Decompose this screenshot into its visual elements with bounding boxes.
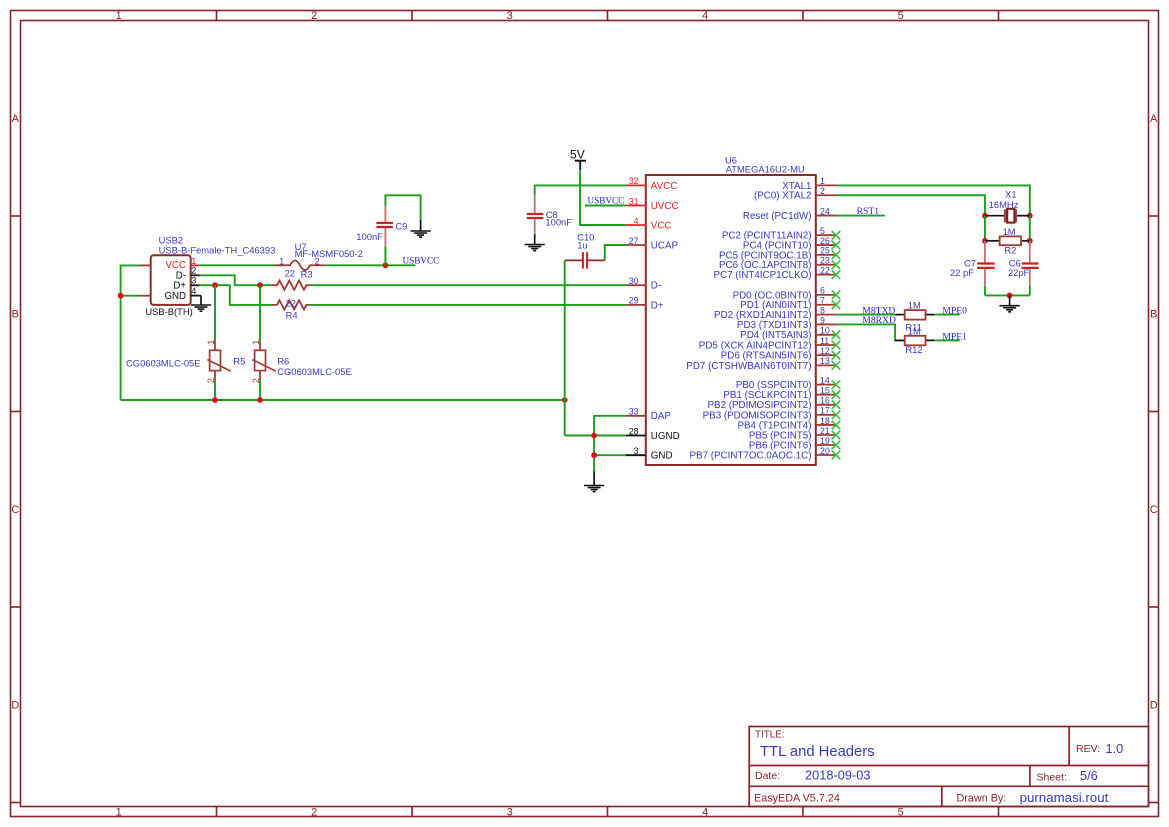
svg-text:C9: C9 xyxy=(395,220,407,231)
svg-text:C: C xyxy=(11,504,19,516)
svg-text:2: 2 xyxy=(311,806,317,818)
svg-text:TITLE:: TITLE: xyxy=(755,730,784,741)
ground (crystal) xyxy=(1000,295,1020,311)
pin 17 PB3 (PDOMISOPCINT3) xyxy=(703,406,837,422)
pin 8 PD2 (RXD1AIN1INT2) xyxy=(714,305,837,321)
svg-text:M8RXD: M8RXD xyxy=(862,315,896,326)
resistor R3 xyxy=(272,268,313,290)
svg-text:22: 22 xyxy=(820,265,830,275)
svg-text:USB-B-Female-TH_C46393: USB-B-Female-TH_C46393 xyxy=(159,244,276,255)
svg-text:100nF: 100nF xyxy=(545,216,572,227)
svg-text:1: 1 xyxy=(251,340,261,345)
no-connect pin 18 xyxy=(832,421,841,430)
no-connect pin 19 xyxy=(832,441,841,450)
wire R3 to U6 D- xyxy=(310,284,626,286)
pin 24 Reset (PC1dW) xyxy=(743,206,837,222)
svg-text:GND: GND xyxy=(164,291,186,302)
pin 3 GND xyxy=(626,446,673,462)
svg-text:CG0603MLC-05E: CG0603MLC-05E xyxy=(126,357,201,368)
varistor R5 xyxy=(206,285,245,400)
svg-text:100nF: 100nF xyxy=(356,231,383,242)
title block xyxy=(749,727,1148,807)
ground (USB2 shell) xyxy=(191,296,211,312)
svg-text:UCAP: UCAP xyxy=(651,240,679,251)
junction C10 column xyxy=(562,397,568,403)
svg-text:UVCC: UVCC xyxy=(651,201,679,212)
svg-text:3: 3 xyxy=(634,446,639,456)
junction shield xyxy=(118,293,124,299)
svg-text:26: 26 xyxy=(820,236,830,246)
wire VCC to fuse xyxy=(200,264,275,266)
svg-text:TTL and Headers: TTL and Headers xyxy=(760,744,875,760)
svg-text:2: 2 xyxy=(820,186,825,196)
wire RST1 xyxy=(837,215,885,217)
pin 31 UVCC xyxy=(626,196,679,212)
svg-text:R2: R2 xyxy=(1004,244,1016,255)
svg-text:6: 6 xyxy=(820,286,825,296)
svg-text:REV:: REV: xyxy=(1076,743,1100,755)
pin 32 AVCC xyxy=(626,176,678,192)
no-connect pin 22 xyxy=(832,270,841,279)
wire DAP xyxy=(594,416,626,472)
svg-text:5: 5 xyxy=(898,806,904,818)
ground stub pin4 xyxy=(200,295,201,297)
svg-text:4: 4 xyxy=(191,286,196,296)
svg-text:Sheet:: Sheet: xyxy=(1037,771,1067,783)
svg-text:GND: GND xyxy=(651,451,673,462)
wire M8RXD xyxy=(837,324,905,340)
svg-text:A: A xyxy=(12,113,20,125)
power 5V xyxy=(570,148,586,171)
wire XTAL2 xyxy=(837,195,985,215)
svg-text:1.0: 1.0 xyxy=(1106,741,1124,756)
no-connect pin 12 xyxy=(832,351,841,360)
svg-text:5: 5 xyxy=(820,226,825,236)
svg-text:2: 2 xyxy=(311,10,317,22)
svg-text:MPE1: MPE1 xyxy=(942,331,967,342)
svg-text:D-: D- xyxy=(651,281,661,292)
svg-text:AVCC: AVCC xyxy=(651,181,678,192)
svg-text:UGND: UGND xyxy=(651,431,680,442)
svg-text:21: 21 xyxy=(820,426,830,436)
pin 27 UCAP xyxy=(626,236,679,252)
ground (U6) xyxy=(584,472,604,492)
svg-text:PC7 (INT4ICP1CLKO): PC7 (INT4ICP1CLKO) xyxy=(714,270,812,281)
svg-text:B: B xyxy=(1150,309,1157,321)
svg-text:18: 18 xyxy=(820,416,830,426)
svg-text:16: 16 xyxy=(820,396,830,406)
pin 26 PC4 (PCINT10) xyxy=(743,236,837,252)
pin 7 PD1 (AIN0INT1) xyxy=(740,296,836,312)
svg-text:ATMEGA16U2-MU: ATMEGA16U2-MU xyxy=(726,164,805,175)
ground (C9) xyxy=(411,220,431,237)
wire USB shield left xyxy=(121,265,141,401)
pin 18 PB4 (T1PCINT4) xyxy=(737,416,836,432)
pin 15 PB1 (SCLKPCINT1) xyxy=(723,386,836,402)
no-connect pin 13 xyxy=(832,361,841,370)
svg-text:1: 1 xyxy=(206,340,216,345)
junction crystal ground xyxy=(1007,293,1013,299)
pin 29 D+ xyxy=(626,296,664,312)
pin 22 PC7 (INT4ICP1CLKO) xyxy=(714,265,837,281)
wire ground bus xyxy=(121,399,565,401)
svg-text:1M: 1M xyxy=(908,300,921,311)
no-connect pin 10 xyxy=(832,331,841,340)
wire UVCC USBVCC xyxy=(585,205,626,207)
connector USB2 xyxy=(141,255,200,305)
svg-text:13: 13 xyxy=(820,356,830,366)
svg-text:1u: 1u xyxy=(577,240,587,251)
svg-text:MF-MSMF050-2: MF-MSMF050-2 xyxy=(295,248,363,259)
junction GND xyxy=(591,452,597,458)
junction R6 top xyxy=(257,282,263,288)
no-connect pin 20 xyxy=(832,451,841,460)
svg-text:R5: R5 xyxy=(233,355,245,366)
wire crystal to R2 right xyxy=(1029,216,1031,241)
svg-text:16MHz: 16MHz xyxy=(989,199,1019,210)
svg-text:8: 8 xyxy=(820,305,825,315)
pin 20 PB7 (PCINT7OC.0AOC.1C) xyxy=(690,446,837,462)
svg-text:PB7 (PCINT7OC.0AOC.1C): PB7 (PCINT7OC.0AOC.1C) xyxy=(690,450,812,461)
no-connect pin 14 xyxy=(832,380,841,389)
svg-text:2: 2 xyxy=(191,266,196,276)
svg-text:12: 12 xyxy=(820,346,830,356)
pin 30 D- xyxy=(626,276,661,292)
wire M8TXD xyxy=(837,314,896,316)
svg-text:22 pF: 22 pF xyxy=(950,267,974,278)
pin 21 PB5 (PCINT5) xyxy=(749,426,837,442)
svg-text:RST1: RST1 xyxy=(857,206,880,217)
no-connect pin 11 xyxy=(832,341,841,350)
svg-text:1: 1 xyxy=(116,10,122,22)
svg-text:33: 33 xyxy=(629,407,639,417)
svg-text:22: 22 xyxy=(285,268,295,279)
svg-text:22pF: 22pF xyxy=(1008,267,1030,278)
junction crystal left xyxy=(982,213,988,219)
svg-text:Date:: Date: xyxy=(755,770,780,782)
wire USB D+ xyxy=(200,285,272,305)
no-connect pin 7 xyxy=(832,300,841,309)
pin 23 PC6 (OC.1APCINT8) xyxy=(719,256,837,272)
svg-text:X1: X1 xyxy=(1005,189,1016,200)
svg-text:32: 32 xyxy=(629,176,639,186)
svg-text:VCC: VCC xyxy=(651,220,672,231)
pin 5 PC2 (PCINT11AIN2) xyxy=(722,226,837,242)
wire UCAP xyxy=(605,245,626,260)
svg-text:purnamasi.rout: purnamasi.rout xyxy=(1020,790,1109,805)
wire MPE1 xyxy=(935,339,960,341)
svg-text:R4: R4 xyxy=(286,310,298,321)
svg-text:4: 4 xyxy=(702,806,708,818)
capacitor C8 xyxy=(527,195,572,234)
pin 25 PC5 (PCINT9OC.1B) xyxy=(719,246,837,262)
svg-text:31: 31 xyxy=(629,196,639,206)
capacitor C6 xyxy=(1008,241,1039,296)
svg-text:23: 23 xyxy=(820,256,830,266)
svg-text:R12: R12 xyxy=(905,344,922,355)
pin 1 XTAL1 xyxy=(782,176,836,192)
svg-text:B: B xyxy=(12,309,19,321)
wire GND pin xyxy=(594,454,626,456)
wire USB D- xyxy=(200,275,272,285)
no-connect pin 26 xyxy=(832,241,841,250)
svg-text:7: 7 xyxy=(820,296,825,306)
ground (C8) xyxy=(525,234,545,250)
svg-text:22: 22 xyxy=(286,297,296,308)
svg-text:3: 3 xyxy=(507,10,513,22)
svg-text:1: 1 xyxy=(820,176,825,186)
op-amp U6 body xyxy=(646,175,816,465)
wire MPE0 xyxy=(935,314,960,316)
no-connect pin 16 xyxy=(832,401,841,410)
capacitor C9 xyxy=(356,206,407,265)
wire C9 to ground xyxy=(385,195,420,220)
svg-text:5V: 5V xyxy=(570,148,585,162)
svg-text:20: 20 xyxy=(820,446,830,456)
pin 6 PD0 (OC.0BINT0) xyxy=(733,286,837,302)
svg-text:3: 3 xyxy=(191,276,196,286)
junction C9 xyxy=(383,262,389,268)
wire 5V to VCC pin xyxy=(580,171,626,225)
svg-text:4: 4 xyxy=(634,216,639,226)
svg-text:27: 27 xyxy=(629,236,639,246)
svg-text:Reset (PC1dW): Reset (PC1dW) xyxy=(743,211,812,222)
svg-text:USBVCC: USBVCC xyxy=(588,196,625,206)
pin 12 PD6 (RTSAIN5INT6) xyxy=(721,346,837,362)
svg-text:DAP: DAP xyxy=(651,411,672,422)
wire XTAL1 xyxy=(837,185,1030,215)
svg-text:9: 9 xyxy=(820,315,825,325)
svg-text:19: 19 xyxy=(820,436,830,446)
no-connect pin 21 xyxy=(832,431,841,440)
pin 11 PD5 (XCK AIN4PCINT12) xyxy=(699,336,837,352)
junction crystal right xyxy=(1027,213,1033,219)
svg-text:D: D xyxy=(1150,700,1158,712)
svg-text:MPE0: MPE0 xyxy=(942,306,967,317)
svg-text:17: 17 xyxy=(820,406,830,416)
resistor R12 xyxy=(895,326,935,355)
svg-text:4: 4 xyxy=(702,10,708,22)
varistor R6 xyxy=(251,285,289,400)
no-connect pin 23 xyxy=(832,260,841,269)
wire AVCC xyxy=(535,185,626,195)
svg-text:USB-B(TH): USB-B(TH) xyxy=(145,306,192,317)
pin 2 (PC0) XTAL2 xyxy=(754,186,837,202)
wire crystal ground bus xyxy=(985,294,1030,296)
svg-text:D: D xyxy=(11,700,19,712)
svg-text:CG0603MLC-05E: CG0603MLC-05E xyxy=(277,366,352,377)
junction UGND xyxy=(591,433,597,439)
wire crystal to R2 left xyxy=(984,216,986,241)
svg-text:C: C xyxy=(1150,504,1158,516)
no-connect pin 15 xyxy=(832,390,841,399)
svg-text:1: 1 xyxy=(279,256,284,266)
svg-text:30: 30 xyxy=(629,276,639,286)
svg-text:2: 2 xyxy=(251,378,261,383)
svg-text:10: 10 xyxy=(820,326,830,336)
pin 10 PD4 (INT5AIN3) xyxy=(740,326,836,342)
resistor R2 xyxy=(985,226,1030,256)
pin 16 PB2 (PDIMOSIPCINT2) xyxy=(708,396,837,412)
svg-text:1: 1 xyxy=(116,806,122,818)
no-connect pin 25 xyxy=(832,251,841,260)
capacitor C7 xyxy=(950,241,995,296)
fuse U7 xyxy=(275,256,325,270)
crystal X1 xyxy=(985,189,1030,223)
svg-text:15: 15 xyxy=(820,386,830,396)
pin 28 UGND xyxy=(626,426,680,442)
svg-text:29: 29 xyxy=(629,296,639,306)
pin 19 PB6 (PCINT6) xyxy=(749,436,837,452)
svg-text:R3: R3 xyxy=(301,268,313,279)
pin 13 PD7 (CTSHWBAIN6T0INT7) xyxy=(686,356,836,372)
svg-text:PD3 (TXD1INT3): PD3 (TXD1INT3) xyxy=(737,320,812,331)
no-connect pin 6 xyxy=(832,291,841,300)
pin 4 VCC xyxy=(626,216,672,232)
junction R6 bottom xyxy=(257,397,263,403)
svg-text:24: 24 xyxy=(820,206,830,216)
svg-text:11: 11 xyxy=(820,336,829,346)
svg-text:Drawn By:: Drawn By: xyxy=(957,793,1007,805)
wire UGND xyxy=(565,435,626,437)
svg-text:USBVCC: USBVCC xyxy=(403,255,440,265)
svg-text:2: 2 xyxy=(206,378,216,383)
svg-text:A: A xyxy=(1150,113,1158,125)
pin 14 PB0 (SSPCINT0) xyxy=(736,375,837,391)
svg-text:25: 25 xyxy=(820,246,830,256)
junction R2 left xyxy=(982,238,988,244)
no-connect pin 17 xyxy=(832,411,841,420)
svg-text:5/6: 5/6 xyxy=(1080,768,1098,783)
wire USBVCC xyxy=(325,264,416,266)
svg-text:14: 14 xyxy=(820,375,830,385)
svg-text:R6: R6 xyxy=(277,355,289,366)
junction R2 right xyxy=(1027,238,1033,244)
no-connect pin 5 xyxy=(832,231,841,240)
svg-text:EasyEDA V5.7.24: EasyEDA V5.7.24 xyxy=(754,793,840,805)
resistor R4 xyxy=(272,297,310,320)
svg-text:28: 28 xyxy=(629,426,639,436)
svg-text:5: 5 xyxy=(898,10,904,22)
svg-text:2018-09-03: 2018-09-03 xyxy=(805,768,870,783)
pin 9 PD3 (TXD1INT3) xyxy=(737,315,837,331)
svg-text:D+: D+ xyxy=(651,300,664,311)
pin 33 DAP xyxy=(626,407,672,423)
junction R5 top xyxy=(212,282,218,288)
wire R4 to U6 D+ xyxy=(310,304,626,306)
svg-text:1: 1 xyxy=(191,256,196,266)
svg-text:1M: 1M xyxy=(1003,226,1016,237)
svg-text:1M: 1M xyxy=(908,326,921,337)
svg-text:(PC0) XTAL2: (PC0) XTAL2 xyxy=(754,191,812,202)
junction R5 bottom xyxy=(212,397,218,403)
svg-text:PD7 (CTSHWBAIN6T0INT7): PD7 (CTSHWBAIN6T0INT7) xyxy=(686,361,811,372)
svg-text:3: 3 xyxy=(507,806,513,818)
wire C10 down to bus/UGND xyxy=(564,260,566,435)
capacitor C10 xyxy=(565,231,605,268)
resistor R11 xyxy=(895,300,934,333)
